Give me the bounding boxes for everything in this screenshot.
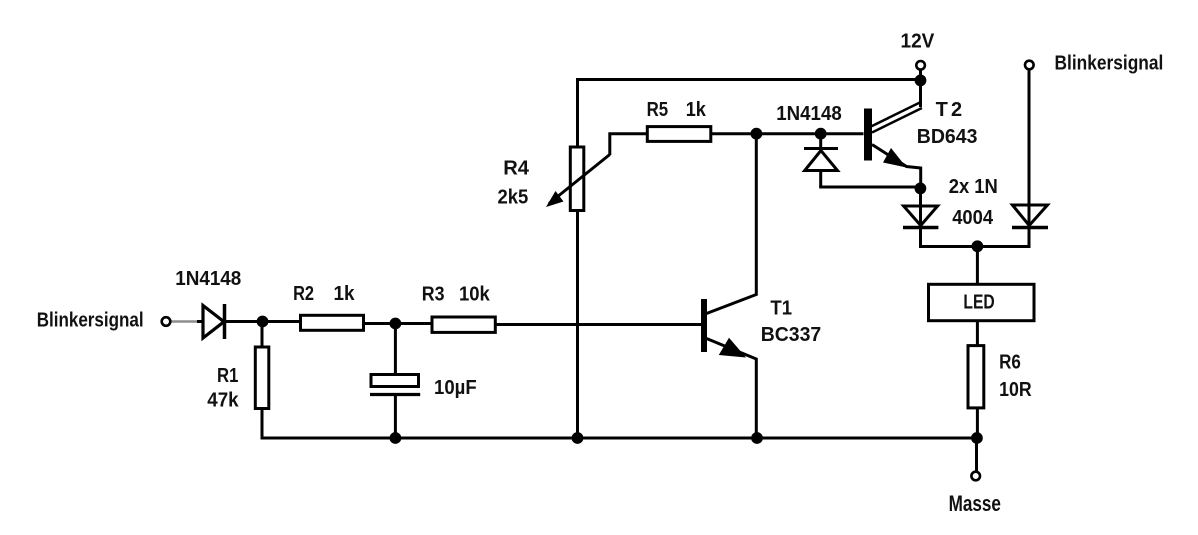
svg-text:R3: R3 (422, 284, 445, 306)
svg-text:12V: 12V (901, 30, 935, 53)
svg-text:R1: R1 (217, 363, 238, 386)
svg-text:2x 1N: 2x 1N (949, 177, 998, 199)
svg-text:10µF: 10µF (434, 377, 477, 399)
svg-text:R2: R2 (293, 282, 314, 305)
svg-text:Masse: Masse (949, 492, 1001, 517)
svg-text:10k: 10k (459, 284, 490, 306)
svg-text:R5: R5 (647, 97, 669, 120)
svg-text:T1: T1 (770, 298, 792, 320)
svg-text:10R: 10R (999, 379, 1032, 401)
svg-text:R6: R6 (999, 350, 1021, 373)
svg-text:Blinkersignal: Blinkersignal (37, 308, 144, 331)
svg-text:4004: 4004 (952, 207, 993, 229)
svg-text:1N4148: 1N4148 (175, 268, 241, 291)
svg-text:R4: R4 (503, 158, 530, 180)
svg-text:LED: LED (963, 291, 994, 313)
svg-text:1N4148: 1N4148 (776, 102, 842, 125)
svg-text:1k: 1k (686, 99, 707, 121)
svg-text:BC337: BC337 (761, 324, 822, 346)
svg-text:2k5: 2k5 (498, 187, 529, 209)
svg-text:Blinkersignal: Blinkersignal (1055, 52, 1164, 74)
svg-text:1k: 1k (334, 283, 355, 306)
svg-text:47k: 47k (207, 389, 239, 412)
svg-text:BD643: BD643 (917, 126, 978, 148)
